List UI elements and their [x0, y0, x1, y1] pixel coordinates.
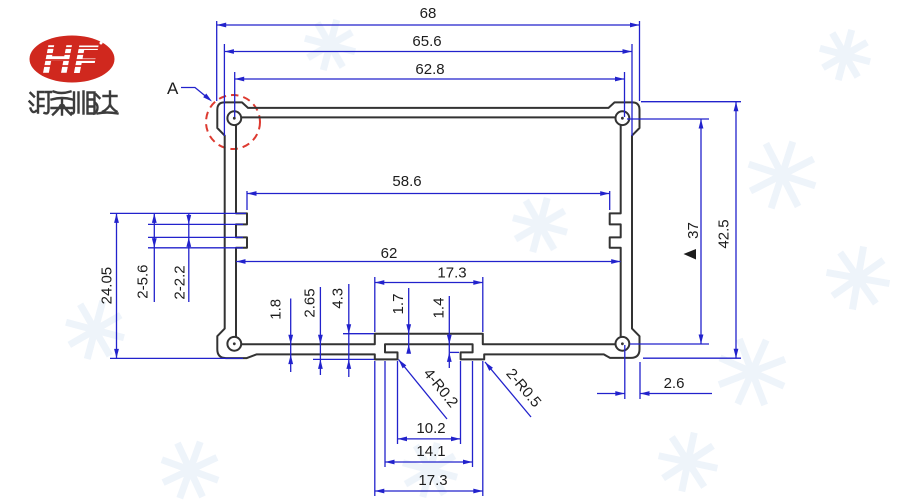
svg-text:2-5.6: 2-5.6: [135, 264, 152, 298]
profile inner left wall with PCB ribs: [236, 125, 247, 337]
svg-text:2.6: 2.6: [664, 375, 685, 392]
dimension 58.6: [247, 193, 610, 195]
screw boss top-right: [616, 111, 630, 125]
svg-text:4.3: 4.3: [330, 288, 347, 309]
dimension 2-2.2: [188, 214, 190, 302]
screw boss top-left: [227, 111, 241, 125]
svg-text:58.6: 58.6: [392, 173, 421, 190]
dimension 17.3 top: [375, 282, 483, 284]
dimension 2.65: [319, 287, 321, 375]
profile inner top wall (ceiling): [242, 116, 616, 118]
profile inner right wall with PCB ribs: [610, 125, 621, 337]
dimension 14.1: [385, 461, 473, 463]
dimension 62.8: [235, 78, 625, 80]
dimension 4.3: [348, 284, 350, 377]
svg-text:68: 68: [420, 5, 437, 22]
svg-text:37: 37: [685, 222, 702, 239]
svg-text:42.5: 42.5: [715, 219, 732, 248]
red detail circle (detail A): [206, 95, 260, 149]
dimension 1.4: [448, 296, 450, 368]
company logo HF: [30, 36, 115, 83]
dimension 10.2: [398, 438, 461, 440]
svg-text:17.3: 17.3: [437, 265, 466, 282]
dimension 17.3 bottom: [375, 490, 483, 492]
dimension 37: [700, 119, 702, 344]
screw boss bottom-right: [616, 337, 630, 351]
dimension 1.8: [290, 299, 292, 373]
svg-text:65.6: 65.6: [412, 33, 441, 50]
dimension 68: [217, 24, 640, 26]
svg-text:62: 62: [381, 245, 398, 262]
svg-text:1.4: 1.4: [431, 298, 448, 319]
extension lines: [110, 21, 741, 496]
dimension 2.6: [597, 393, 712, 395]
leader from A to detail circle: [181, 88, 209, 100]
company name 鸿发顺达 (drawn strokes): [30, 92, 118, 115]
dimension 1.7: [408, 288, 410, 352]
dimension 62: [236, 261, 621, 263]
dimension 2-5.6: [153, 213, 155, 302]
leader 2-R0.5: [485, 362, 531, 417]
dimension 24.05: [116, 213, 118, 358]
dimension 42.5: [735, 102, 737, 359]
svg-text:62.8: 62.8: [415, 61, 444, 78]
svg-text:1.7: 1.7: [390, 294, 407, 315]
svg-text:2.65: 2.65: [302, 288, 319, 317]
svg-text:2-2.2: 2-2.2: [172, 265, 189, 299]
leader 4-R0.2: [399, 360, 448, 420]
svg-text:24.05: 24.05: [99, 267, 116, 305]
screw boss bottom-left: [227, 337, 241, 351]
svg-text:10.2: 10.2: [416, 420, 445, 437]
profile outer contour: [217, 102, 639, 359]
svg-text:17.3: 17.3: [418, 472, 447, 489]
profile inner bottom wall and screw channel box: [241, 334, 617, 345]
dimension 65.6: [224, 51, 632, 53]
svg-text:A: A: [167, 79, 179, 98]
svg-text:1.8: 1.8: [268, 299, 285, 320]
svg-text:14.1: 14.1: [416, 443, 445, 460]
